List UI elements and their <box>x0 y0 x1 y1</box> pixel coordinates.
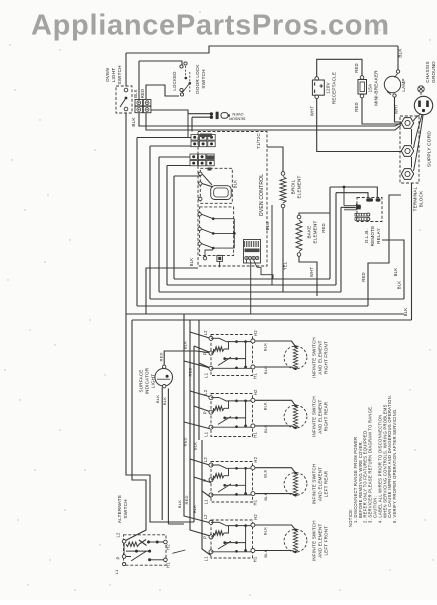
label WHT <box>394 104 399 114</box>
svg-text:120V: 120V <box>326 82 331 94</box>
svg-text:LEFT FRONT: LEFT FRONT <box>324 526 329 556</box>
wire feeder tap P unit4 <box>190 459 211 536</box>
connector strip 2 <box>190 154 197 159</box>
svg-text:RED: RED <box>188 367 193 376</box>
label RED feeder2 <box>183 437 188 446</box>
svg-text:GROUND: GROUND <box>431 61 436 83</box>
oven control relay 2 <box>200 207 234 256</box>
terminal H2 LEFT FRONT <box>251 523 255 527</box>
lamp <box>397 46 399 70</box>
label BLK feeder <box>183 341 188 349</box>
svg-text:BLK: BLK <box>183 341 188 349</box>
label BLK below oven light switch <box>131 117 136 127</box>
wire nest loop 5 <box>174 176 330 279</box>
oven light switch box <box>116 86 132 113</box>
label OVEN SENSOR (upside down) <box>229 112 246 121</box>
terminal H2 RIGHT REAR <box>251 398 255 402</box>
surface indicator light <box>155 369 173 387</box>
label BLK <box>133 89 138 98</box>
label RED <box>354 102 359 111</box>
pin label L2 RIGHT FRONT <box>203 330 208 336</box>
wire BLK light 2 <box>168 389 184 525</box>
wire transformer step to nest <box>257 267 273 279</box>
label BLK bus <box>403 308 408 317</box>
pin label H2 alt <box>166 544 171 550</box>
DLB remote relay box <box>357 198 382 222</box>
wire feeder tap L2 unit2 <box>190 332 211 397</box>
svg-text:RED: RED <box>183 437 188 446</box>
wire top bus BLK <box>126 46 398 53</box>
wire broil return <box>282 208 284 292</box>
svg-text:DOOR LOCK: DOOR LOCK <box>195 64 200 94</box>
terminal L2 LEFT REAR <box>209 463 213 467</box>
label INFINITE SWITCH AND ELEMENT RIGHT REAR <box>312 396 329 437</box>
label BLK wire H1 RIGHT REAR <box>263 425 268 433</box>
label 15A MINI-BREAKER <box>368 70 379 106</box>
wire riser to DLB cap2 <box>330 187 377 279</box>
terminal stud 2 <box>401 146 413 157</box>
pin label H1 RIGHT REAR <box>252 432 257 438</box>
wire feeder tap L1 unit1 <box>184 314 211 368</box>
wire RED light top <box>164 351 211 365</box>
terminal L2 RIGHT REAR <box>209 396 213 400</box>
svg-text:L1: L1 <box>204 431 209 437</box>
door lock switch <box>180 65 183 68</box>
terminal L1 LEFT FRONT <box>209 550 213 554</box>
label BLK feeder2 <box>193 442 198 450</box>
DLB relay coil <box>356 205 361 210</box>
svg-text:BLK: BLK <box>263 527 268 535</box>
small relay T symbol <box>217 255 223 261</box>
terminal H1 LEFT REAR <box>251 492 255 496</box>
wire H2 to element RIGHT FRONT <box>255 341 296 347</box>
wire transformer to bus <box>250 262 252 314</box>
svg-text:BLK: BLK <box>189 258 194 267</box>
svg-text:BLK: BLK <box>155 395 160 403</box>
label T1/T2C <box>256 133 261 149</box>
pin label L1 LEFT REAR <box>204 499 209 505</box>
svg-text:OVEN: OVEN <box>232 112 243 117</box>
wire feeder tap P unit1 unit2 <box>194 346 211 412</box>
svg-text:ELEMENT: ELEMENT <box>313 220 318 243</box>
label DOOR LOCK SWITCH <box>195 64 206 94</box>
wire feeder tap L1 unit2 <box>184 361 211 429</box>
broil element <box>281 172 285 176</box>
terminal P RIGHT REAR <box>209 410 213 414</box>
label INFINITE SWITCH AND ELEMENT LEFT FRONT <box>312 520 329 561</box>
wire BLK from control to bus <box>146 268 198 314</box>
label RED light <box>159 352 164 361</box>
label OVEN CONTROL <box>259 174 265 216</box>
pin label H2 RIGHT FRONT <box>253 330 258 336</box>
terminal H1 RIGHT REAR <box>251 424 255 428</box>
wire H1 to element RIGHT FRONT <box>255 367 296 369</box>
supply cord plug <box>414 96 432 114</box>
wire riser to DLB coil <box>341 207 355 292</box>
label BLK feeder3 <box>177 500 182 508</box>
label TERMINAL BLOCK <box>413 186 424 211</box>
wire WHT lamp to terminal 1 <box>395 97 402 122</box>
svg-text:SWITCH: SWITCH <box>117 65 122 84</box>
wire WHT long run to terminal 1 <box>139 113 401 126</box>
svg-text:BLK: BLK <box>263 402 268 410</box>
svg-text:WHT: WHT <box>310 106 315 116</box>
svg-text:RIGHT FRONT: RIGHT FRONT <box>324 341 329 374</box>
svg-text:5. VERIFY PROPER OPERATION AFT: 5. VERIFY PROPER OPERATION AFTER SERVICI… <box>392 408 397 523</box>
wire H2 to element RIGHT REAR <box>255 400 296 405</box>
label BLK wire H2 LEFT FRONT <box>263 527 268 535</box>
svg-text:RED: RED <box>184 495 189 504</box>
wire H2 to element LEFT REAR <box>255 468 296 473</box>
terminal H2 LEFT REAR <box>251 466 255 470</box>
svg-text:RED: RED <box>354 63 359 72</box>
DLB contact caps <box>366 198 373 201</box>
120V receptacle <box>315 77 319 81</box>
svg-text:L2: L2 <box>203 514 208 520</box>
pin label P LEFT FRONT <box>203 536 208 539</box>
label LOCKED <box>172 71 177 90</box>
15A mini-breaker <box>360 76 364 80</box>
svg-text:BLK: BLK <box>263 366 268 374</box>
wire feeder link <box>198 363 200 440</box>
svg-text:P: P <box>203 352 208 355</box>
svg-text:CHASSIS: CHASSIS <box>425 61 430 83</box>
svg-text:D.L.B.: D.L.B. <box>364 229 369 243</box>
wire feeder tap L2 unit3 <box>190 391 211 466</box>
scan speckles (noise) <box>14 89 15 90</box>
svg-text:H2: H2 <box>253 330 258 336</box>
svg-text:RED: RED <box>140 89 145 98</box>
svg-text:H2: H2 <box>253 514 258 520</box>
svg-text:OVEN: OVEN <box>105 68 110 82</box>
label DLB REMOTE RELAY <box>364 226 381 247</box>
pin label L2 alt <box>116 532 121 538</box>
label CHASSIS GROUND <box>425 61 436 83</box>
svg-text:T1/T2C: T1/T2C <box>256 133 261 149</box>
element circle LEFT FRONT <box>284 529 307 552</box>
svg-text:INDICATOR: INDICATOR <box>145 367 150 394</box>
label LAMP <box>401 78 406 91</box>
svg-text:L2: L2 <box>203 457 208 463</box>
wire feeder tap2 L1 unit1 <box>199 320 211 368</box>
pin label H2 LEFT FRONT <box>253 514 258 520</box>
wire transformer leads <box>246 260 257 267</box>
svg-text:AND ELEMENT: AND ELEMENT <box>318 467 323 501</box>
terminal stud 1 <box>401 118 413 129</box>
wire feeder tap L2 unit1 <box>190 320 211 339</box>
wire bake to riser <box>299 213 330 215</box>
wire H1 to element RIGHT REAR <box>255 426 296 428</box>
label RED <box>321 223 326 232</box>
wire sensor lead 2 <box>192 117 210 131</box>
alternate switch box <box>124 535 167 565</box>
terminal L2 LEFT FRONT <box>209 520 213 524</box>
svg-text:RED: RED <box>354 102 359 111</box>
label WHT <box>309 267 314 277</box>
terminal block box <box>400 116 419 183</box>
terminal H1 alt <box>164 558 168 562</box>
oven sensor connector <box>216 112 219 119</box>
svg-text:BLK: BLK <box>403 308 408 317</box>
terminal L2 alt <box>122 540 126 544</box>
svg-text:WHT: WHT <box>309 267 314 277</box>
wire nest loop 4 <box>167 166 336 286</box>
wire H2 to element LEFT FRONT <box>255 525 296 530</box>
svg-text:SWITCH: SWITCH <box>201 69 206 88</box>
label BAKE ELEMENT <box>307 220 318 243</box>
pin label H2 RIGHT REAR <box>253 389 258 395</box>
wire bus L1 <box>126 313 404 315</box>
svg-text:BROIL: BROIL <box>291 179 296 194</box>
wire RED to door lock <box>146 85 179 99</box>
terminal L2 RIGHT FRONT <box>209 336 213 340</box>
svg-text:WHT: WHT <box>394 104 399 114</box>
pin label P LEFT REAR <box>203 479 208 482</box>
svg-text:15A: 15A <box>368 83 373 93</box>
wire RED breaker to terminal block <box>362 98 401 124</box>
label BLK wire H2 RIGHT REAR <box>263 402 268 410</box>
label BLK wire H2 RIGHT FRONT <box>263 343 268 351</box>
svg-text:INFINITE SWITCH: INFINITE SWITCH <box>312 520 317 561</box>
wire nest loop 3 <box>159 157 341 292</box>
svg-text:BLK: BLK <box>131 117 136 127</box>
chassis ground symbol <box>418 86 424 92</box>
wire broil to control <box>267 147 283 172</box>
svg-text:L1: L1 <box>204 499 209 505</box>
pin label P alt <box>116 557 121 560</box>
svg-text:YEL: YEL <box>283 261 288 270</box>
svg-text:LOCKED: LOCKED <box>172 71 177 90</box>
wire riser to DLB cap1 <box>336 193 368 285</box>
wire jumpers between studs <box>411 129 413 168</box>
svg-text:BLK: BLK <box>193 442 198 450</box>
pin label L1 LEFT FRONT <box>204 556 209 562</box>
label BLK top right <box>398 48 403 58</box>
pin label P RIGHT REAR <box>203 411 208 414</box>
svg-text:P: P <box>203 479 208 482</box>
pin label L1 RIGHT REAR <box>204 431 209 437</box>
svg-text:INFINITE SWITCH: INFINITE SWITCH <box>312 464 317 505</box>
svg-text:RED: RED <box>321 223 326 232</box>
svg-text:P: P <box>203 411 208 414</box>
label YEL <box>283 261 288 270</box>
svg-text:AND ELEMENT: AND ELEMENT <box>318 399 323 433</box>
notes text block <box>348 395 397 527</box>
wire feeder stub <box>193 477 195 522</box>
wire oven light drop <box>125 53 127 86</box>
pin label L2 RIGHT REAR <box>203 389 208 395</box>
svg-text:BLOCK: BLOCK <box>419 190 424 207</box>
switch contacts LEFT FRONT <box>211 522 227 526</box>
pin label L2 LEFT REAR <box>203 457 208 463</box>
label BROIL ELEMENT <box>291 175 302 198</box>
wire left branch to alternate switch <box>124 320 146 541</box>
terminal L1 RIGHT FRONT <box>209 366 213 370</box>
svg-text:H1: H1 <box>252 556 257 562</box>
label SURFACE INDICATOR LIGHT <box>139 367 156 394</box>
svg-text:BLK: BLK <box>263 492 268 500</box>
switch contacts RIGHT REAR <box>211 398 227 402</box>
terminal P LEFT REAR <box>209 478 213 482</box>
element circle RIGHT FRONT <box>284 346 307 369</box>
svg-text:H2: H2 <box>253 389 258 395</box>
svg-text:AND ELEMENT: AND ELEMENT <box>318 340 323 374</box>
label ALTERNATE SWITCH <box>117 495 128 523</box>
terminal H1 RIGHT FRONT <box>251 365 255 369</box>
terminal L1 RIGHT REAR <box>209 425 213 429</box>
wire nest loop 1 <box>137 138 368 307</box>
svg-text:INFINITE SWITCH: INFINITE SWITCH <box>312 396 317 437</box>
oven control relay 1 <box>200 168 232 203</box>
connector strip 1 <box>191 135 198 141</box>
wire relay2 common <box>233 219 235 248</box>
wire nest loop 2 <box>150 146 404 299</box>
svg-text:L1: L1 <box>204 372 209 378</box>
terminal P LEFT FRONT <box>209 535 213 539</box>
wire BLK into connector <box>138 61 140 99</box>
svg-text:INFINITE SWITCH: INFINITE SWITCH <box>312 337 317 378</box>
connector block 2x2 <box>135 100 143 106</box>
svg-text:ALTERNATE: ALTERNATE <box>117 495 122 523</box>
wire RED long run to terminal 1 <box>146 113 401 130</box>
svg-text:SWITCH: SWITCH <box>123 499 128 518</box>
wire H1 to element LEFT FRONT <box>255 551 296 552</box>
DLB terminal strips <box>355 213 367 216</box>
terminal L1 alt <box>123 563 126 566</box>
transformer <box>244 240 261 264</box>
infinite switch box LEFT FRONT <box>211 520 253 558</box>
terminal H2 RIGHT FRONT <box>251 339 255 343</box>
svg-text:BLK: BLK <box>263 425 268 433</box>
svg-text:RIGHT REAR: RIGHT REAR <box>324 401 329 431</box>
pin label H1 alt <box>166 562 171 568</box>
svg-text:MINI-BREAKER: MINI-BREAKER <box>374 70 379 106</box>
label BLK near transformer <box>189 258 194 267</box>
pin label H1 LEFT REAR <box>252 499 257 505</box>
infinite switch box LEFT REAR <box>211 462 253 503</box>
svg-text:BLK: BLK <box>133 89 138 98</box>
label BLK wire H1 LEFT REAR <box>263 492 268 500</box>
svg-text:BLK: BLK <box>397 281 402 290</box>
svg-text:BLK: BLK <box>192 505 197 513</box>
svg-text:LIGHT: LIGHT <box>111 68 116 83</box>
pin label P RIGHT FRONT <box>203 352 208 355</box>
label BLK vertical <box>393 268 398 277</box>
switch contacts LEFT REAR <box>211 465 227 469</box>
pin label L1 RIGHT FRONT <box>204 372 209 378</box>
label RED <box>354 63 359 72</box>
svg-text:H2: H2 <box>253 456 258 462</box>
label INFINITE SWITCH AND ELEMENT RIGHT FRONT <box>312 337 329 378</box>
svg-text:H1: H1 <box>252 373 257 379</box>
supply cord leads <box>414 114 422 121</box>
wire L2-P link alt <box>123 543 125 555</box>
svg-text:AppliancePartsPros.com: AppliancePartsPros.com <box>31 10 390 42</box>
svg-text:LAMP: LAMP <box>401 78 406 91</box>
svg-text:BLK: BLK <box>393 268 398 277</box>
svg-text:L2: L2 <box>203 389 208 395</box>
wire DLB coil feed <box>343 187 345 206</box>
svg-text:RELAY: RELAY <box>376 228 381 244</box>
svg-text:LIGHT: LIGHT <box>151 374 156 389</box>
pin label L2 LEFT FRONT <box>203 514 208 520</box>
svg-text:SUPPLY CORD: SUPPLY CORD <box>427 131 433 167</box>
label RED feeder <box>188 367 193 376</box>
svg-text:RECEPTACLE: RECEPTACLE <box>332 72 337 104</box>
label INFINITE SWITCH AND ELEMENT LEFT REAR <box>312 464 329 505</box>
wire to door lock <box>139 61 182 66</box>
label OVEN LIGHT SWITCH <box>105 65 122 84</box>
bake element <box>297 215 301 219</box>
terminal stud 3 <box>401 169 413 180</box>
label BLU <box>265 222 270 231</box>
svg-text:LEFT REAR: LEFT REAR <box>324 470 329 497</box>
label BLK wire H1 RIGHT FRONT <box>263 366 268 374</box>
infinite switch box RIGHT FRONT <box>211 335 253 376</box>
svg-text:BLK: BLK <box>263 343 268 351</box>
wire sensor lead 1 <box>188 113 210 115</box>
svg-text:AND ELEMENT: AND ELEMENT <box>318 524 323 558</box>
svg-text:REMOTE: REMOTE <box>370 226 375 247</box>
wire feeder tap L1 unit4 <box>202 491 211 556</box>
wire BLU <box>271 205 273 285</box>
svg-text:H1: H1 <box>252 499 257 505</box>
oven light switch contacts <box>124 88 128 92</box>
terminal P alt <box>122 555 126 559</box>
infinite switch box RIGHT REAR <box>211 394 253 437</box>
wire riser jog <box>368 240 389 306</box>
pointer line <box>172 550 185 553</box>
wire H1 to element LEFT REAR <box>255 494 296 496</box>
svg-text:P: P <box>203 536 208 539</box>
wire long left BLK run to lower mesh <box>126 113 194 522</box>
label WHT receptacle <box>310 106 315 116</box>
svg-text:L1: L1 <box>114 569 119 574</box>
oven control box <box>198 132 267 267</box>
pin label L1 alt <box>114 569 119 574</box>
svg-text:L2: L2 <box>203 330 208 336</box>
wire bake return WHT <box>299 257 317 297</box>
element circle LEFT REAR <box>284 473 307 496</box>
svg-text:BLK: BLK <box>177 500 182 508</box>
terminal L1 LEFT REAR <box>209 493 213 497</box>
svg-text:H1: H1 <box>166 562 171 568</box>
svg-text:ELEMENT: ELEMENT <box>297 175 302 198</box>
svg-text:BLK: BLK <box>263 549 268 557</box>
svg-text:H2: H2 <box>166 544 171 550</box>
wire bus L2 from terminal block <box>132 183 412 320</box>
wire feeder tap L1 unit3 <box>202 440 211 498</box>
pin label H1 RIGHT FRONT <box>252 373 257 379</box>
svg-text:SURFACE: SURFACE <box>139 369 144 392</box>
element circle RIGHT REAR <box>284 405 307 428</box>
wire riser to terminal 3 <box>389 195 401 240</box>
label BLK light2 <box>162 397 167 405</box>
label RED feeder3 <box>184 495 189 504</box>
svg-text:BLK: BLK <box>263 469 268 477</box>
wire riser BLK to DLB <box>382 240 404 299</box>
label BLK light1 <box>155 395 160 403</box>
svg-text:RED: RED <box>159 352 164 361</box>
svg-text:BLK: BLK <box>233 180 238 189</box>
label BLK wire H1 LEFT FRONT <box>263 549 268 557</box>
wire feeder tap P unit3 <box>194 406 211 483</box>
wire to oven sensor 1 <box>151 110 188 114</box>
svg-text:H1: H1 <box>252 432 257 438</box>
terminal H2 alt <box>164 540 168 544</box>
svg-text:RED: RED <box>361 272 366 281</box>
label RED <box>140 89 145 98</box>
